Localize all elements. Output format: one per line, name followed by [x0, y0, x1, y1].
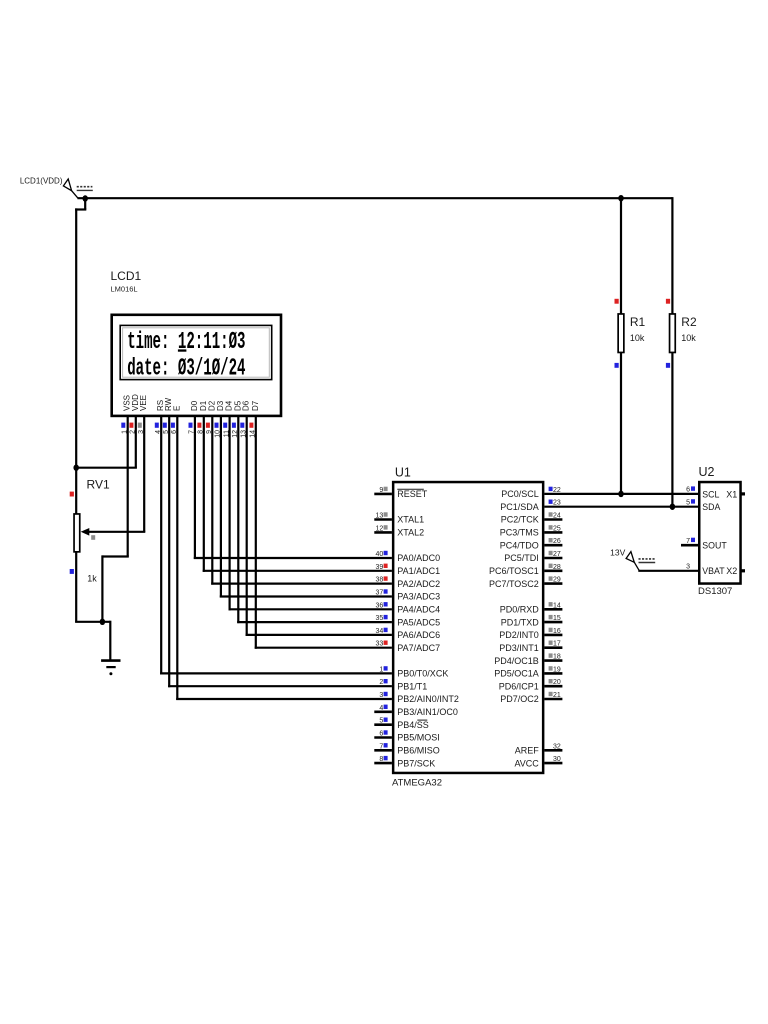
- svg-text:PC0/SCL: PC0/SCL: [501, 489, 539, 499]
- svg-text:LM016L: LM016L: [111, 285, 138, 294]
- svg-text:PC5/TDI: PC5/TDI: [504, 553, 539, 563]
- svg-text:D0: D0: [190, 400, 199, 411]
- svg-text:E: E: [172, 406, 181, 411]
- svg-text:PB4/SS: PB4/SS: [397, 720, 429, 730]
- svg-text:R2: R2: [681, 315, 697, 329]
- svg-text:PD2/INT0: PD2/INT0: [499, 630, 539, 640]
- svg-text:4: 4: [155, 430, 162, 434]
- svg-text:1k: 1k: [87, 574, 97, 584]
- svg-text:D3: D3: [216, 400, 225, 411]
- svg-text:7: 7: [189, 430, 196, 434]
- svg-text:8: 8: [198, 430, 205, 434]
- svg-text:PD1/TXD: PD1/TXD: [501, 617, 540, 627]
- svg-text:time: 12:11:Ø3: time: 12:11:Ø3: [127, 329, 245, 356]
- svg-text:PB5/MOSI: PB5/MOSI: [397, 733, 440, 743]
- svg-text:35: 35: [376, 615, 384, 622]
- svg-text:PA2/ADC2: PA2/ADC2: [397, 579, 440, 589]
- svg-text:39: 39: [376, 564, 384, 571]
- svg-text:36: 36: [376, 602, 384, 609]
- svg-text:10: 10: [215, 430, 222, 438]
- svg-text:X2: X2: [726, 566, 737, 576]
- svg-text:D4: D4: [225, 400, 234, 411]
- svg-text:20: 20: [553, 679, 561, 686]
- svg-text:PB0/T0/XCK: PB0/T0/XCK: [397, 669, 448, 679]
- svg-text:PA7/ADC7: PA7/ADC7: [397, 643, 440, 653]
- svg-text:date: Ø3/1Ø/24: date: Ø3/1Ø/24: [127, 355, 245, 382]
- svg-text:D7: D7: [251, 400, 260, 411]
- svg-text:VEE: VEE: [139, 395, 148, 411]
- svg-text:1: 1: [379, 666, 383, 673]
- svg-text:9: 9: [206, 430, 213, 434]
- svg-text:SOUT: SOUT: [702, 541, 727, 551]
- svg-text:4: 4: [379, 705, 383, 712]
- svg-text:LCD1: LCD1: [111, 269, 142, 283]
- svg-text:14: 14: [553, 602, 561, 609]
- svg-text:PB2/AIN0/INT2: PB2/AIN0/INT2: [397, 694, 459, 704]
- svg-text:28: 28: [553, 564, 561, 571]
- svg-text:PC4/TDO: PC4/TDO: [500, 540, 539, 550]
- svg-text:29: 29: [553, 577, 561, 584]
- svg-text:34: 34: [376, 628, 384, 635]
- svg-text:8: 8: [379, 756, 383, 763]
- svg-text:3: 3: [379, 692, 383, 699]
- svg-text:26: 26: [553, 538, 561, 545]
- svg-text:PC2/TCK: PC2/TCK: [501, 515, 539, 525]
- svg-text:SCL: SCL: [702, 489, 719, 499]
- svg-text:1: 1: [122, 430, 129, 434]
- svg-text:XTAL1: XTAL1: [397, 515, 424, 525]
- svg-text:16: 16: [553, 628, 561, 635]
- svg-text:30: 30: [553, 756, 561, 763]
- svg-text:PD6/ICP1: PD6/ICP1: [499, 681, 539, 691]
- svg-text:12: 12: [232, 430, 239, 438]
- svg-text:DS1307: DS1307: [698, 586, 732, 597]
- svg-text:6: 6: [686, 487, 690, 494]
- svg-text:PC6/TOSC1: PC6/TOSC1: [489, 566, 539, 576]
- svg-text:PA1/ADC1: PA1/ADC1: [397, 566, 440, 576]
- svg-text:PB1/T1: PB1/T1: [397, 681, 427, 691]
- svg-text:27: 27: [553, 551, 561, 558]
- svg-text:5: 5: [163, 430, 170, 434]
- svg-text:37: 37: [376, 590, 384, 597]
- svg-text:38: 38: [376, 577, 384, 584]
- svg-text:PB3/AIN1/OC0: PB3/AIN1/OC0: [397, 707, 458, 717]
- svg-text:11: 11: [223, 430, 230, 437]
- svg-text:PC3/TMS: PC3/TMS: [500, 528, 539, 538]
- svg-text:2: 2: [130, 430, 137, 434]
- svg-text:5: 5: [686, 500, 690, 507]
- svg-text:XTAL2: XTAL2: [397, 528, 424, 538]
- svg-text:10k: 10k: [681, 333, 696, 343]
- svg-text:PA6/ADC6: PA6/ADC6: [397, 630, 440, 640]
- svg-text:RV1: RV1: [87, 478, 110, 492]
- svg-text:15: 15: [553, 615, 561, 622]
- svg-text:23: 23: [553, 500, 561, 507]
- svg-text:40: 40: [376, 551, 384, 558]
- svg-text:PB6/MISO: PB6/MISO: [397, 746, 440, 756]
- svg-text:3: 3: [686, 564, 690, 571]
- svg-text:2: 2: [379, 679, 383, 686]
- svg-text:PA5/ADC5: PA5/ADC5: [397, 617, 440, 627]
- svg-text:12: 12: [376, 525, 384, 532]
- svg-text:PD5/OC1A: PD5/OC1A: [494, 669, 539, 679]
- svg-text:17: 17: [553, 641, 561, 648]
- svg-text:25: 25: [553, 525, 561, 532]
- svg-text:19: 19: [553, 666, 561, 673]
- svg-text:PB7/SCK: PB7/SCK: [397, 758, 435, 768]
- svg-text:33: 33: [376, 641, 384, 648]
- svg-text:7: 7: [379, 743, 383, 750]
- svg-text:13V: 13V: [610, 547, 625, 557]
- svg-text:RESET: RESET: [397, 489, 428, 499]
- svg-text:3: 3: [138, 430, 145, 434]
- svg-text:22: 22: [553, 487, 561, 494]
- svg-text:6: 6: [171, 430, 178, 434]
- svg-text:AREF: AREF: [515, 746, 540, 756]
- svg-text:U2: U2: [699, 465, 715, 479]
- svg-text:PD4/OC1B: PD4/OC1B: [494, 656, 539, 666]
- svg-text:PD0/RXD: PD0/RXD: [500, 605, 540, 615]
- svg-text:24: 24: [553, 513, 561, 520]
- svg-text:ATMEGA32: ATMEGA32: [392, 778, 442, 789]
- svg-text:13: 13: [376, 513, 384, 520]
- svg-text:9: 9: [379, 487, 383, 494]
- svg-text:X1: X1: [726, 489, 737, 499]
- svg-text:32: 32: [553, 743, 561, 750]
- svg-text:AVCC: AVCC: [514, 758, 539, 768]
- svg-text:21: 21: [553, 692, 561, 699]
- svg-text:6: 6: [379, 731, 383, 738]
- svg-text:R1: R1: [630, 315, 646, 329]
- svg-text:LCD1(VDD): LCD1(VDD): [20, 177, 63, 186]
- svg-text:PD3/INT1: PD3/INT1: [499, 643, 539, 653]
- svg-text:D6: D6: [242, 400, 251, 411]
- svg-text:PA3/ADC3: PA3/ADC3: [397, 592, 440, 602]
- svg-text:10k: 10k: [630, 333, 645, 343]
- svg-text:U1: U1: [395, 466, 411, 480]
- svg-text:PA4/ADC4: PA4/ADC4: [397, 605, 440, 615]
- svg-text:VBAT: VBAT: [702, 566, 725, 576]
- svg-text:PD7/OC2: PD7/OC2: [500, 694, 539, 704]
- svg-text:18: 18: [553, 654, 561, 661]
- svg-text:14: 14: [250, 430, 257, 438]
- svg-text:SDA: SDA: [702, 502, 720, 512]
- svg-text:PC1/SDA: PC1/SDA: [500, 502, 539, 512]
- svg-text:PA0/ADC0: PA0/ADC0: [397, 553, 440, 563]
- svg-text:5: 5: [379, 718, 383, 725]
- svg-text:13: 13: [241, 430, 248, 438]
- svg-text:PC7/TOSC2: PC7/TOSC2: [489, 579, 539, 589]
- svg-text:7: 7: [686, 538, 690, 545]
